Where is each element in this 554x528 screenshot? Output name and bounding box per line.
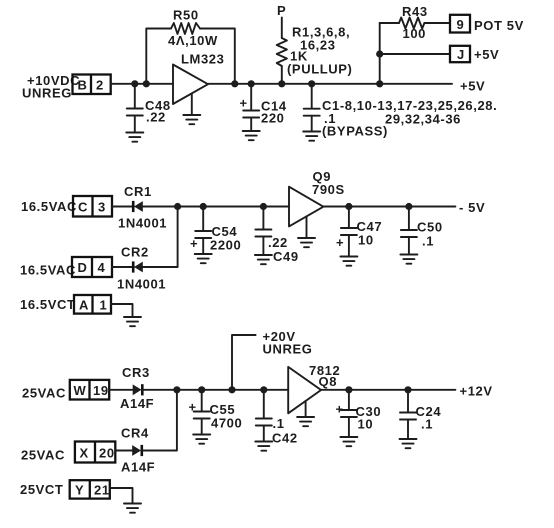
svg-text:1N4001: 1N4001 (118, 216, 167, 231)
svg-text:D: D (78, 260, 88, 275)
node P stub (277, 3, 286, 38)
ground C47 (340, 257, 357, 266)
connector W-19 (70, 380, 109, 400)
svg-text:4: 4 (98, 260, 106, 275)
connector D-4 (72, 257, 112, 277)
svg-text:CR1: CR1 (124, 184, 152, 199)
svg-text:X: X (80, 446, 89, 461)
svg-text:16.5VCT: 16.5VCT (20, 297, 76, 312)
capacitor C30 (336, 390, 382, 437)
wire C3 to CR1 (112, 206, 134, 208)
svg-text:2200: 2200 (210, 238, 241, 253)
transistor Q8 7812 regulator (288, 363, 340, 413)
svg-text:29,32,34-36: 29,32,34-36 (385, 112, 461, 127)
svg-text:1N4001: 1N4001 (117, 277, 166, 292)
svg-text:+: + (189, 400, 197, 415)
ground Q9 (298, 217, 315, 248)
svg-text:UNREG: UNREG (263, 342, 313, 357)
ground C14 (243, 131, 260, 140)
connector J +5V (450, 46, 499, 62)
svg-text:CR4: CR4 (121, 426, 149, 441)
svg-text:Y: Y (75, 483, 84, 498)
svg-text:3: 3 (98, 200, 106, 215)
svg-text:2: 2 (96, 78, 104, 93)
wire -5V rail left (143, 206, 290, 208)
wire R43 branch vertical (379, 23, 381, 84)
svg-text:10: 10 (358, 417, 374, 432)
svg-text:1: 1 (100, 298, 108, 313)
svg-text:790S: 790S (312, 182, 345, 197)
svg-text:.1: .1 (273, 416, 285, 431)
ground Y21 (124, 504, 141, 513)
svg-text:C49: C49 (273, 249, 299, 264)
junction C30 (345, 386, 352, 393)
connector X-20 (75, 442, 115, 463)
node +10VDC UNREG label (22, 73, 80, 101)
connector A-1 (74, 295, 111, 314)
svg-text:C: C (78, 200, 88, 215)
capacitor C1-8 bypass (304, 84, 498, 139)
capacitor C50 (401, 207, 443, 255)
svg-text:+5V: +5V (460, 79, 485, 94)
junction feedback right (231, 80, 238, 87)
capacitor C48 (127, 84, 171, 132)
junction C50 (405, 203, 412, 210)
svg-text:A14F: A14F (121, 460, 155, 475)
node +20V UNREG tap (232, 329, 312, 390)
svg-text:+12V: +12V (460, 384, 493, 399)
svg-text:.1: .1 (422, 234, 434, 249)
svg-text:(PULLUP): (PULLUP) (287, 62, 352, 77)
wire +12V rail right (321, 389, 455, 391)
capacitor C24 (400, 390, 441, 439)
svg-text:CR3: CR3 (122, 365, 150, 380)
svg-text:25VAC: 25VAC (21, 448, 65, 463)
wire W19 to CR3 (109, 389, 133, 391)
svg-text:16.5VAC: 16.5VAC (21, 199, 77, 214)
capacitor C14 (240, 84, 287, 131)
resistor R43 (380, 4, 450, 41)
op-amp U1 LM323 regulator (173, 52, 224, 105)
svg-text:21: 21 (94, 483, 110, 498)
capacitor C54 (190, 207, 241, 254)
svg-text:- 5V: - 5V (459, 200, 485, 215)
svg-text:C42: C42 (272, 431, 298, 446)
junction R43 branch (376, 80, 383, 87)
svg-text:10: 10 (358, 233, 374, 248)
junction C49 (260, 203, 267, 210)
svg-text:W: W (74, 383, 87, 398)
junction bypass (308, 80, 315, 87)
wire -5V rail right (323, 206, 455, 208)
junction C55 (198, 386, 205, 393)
svg-text:A: A (79, 298, 89, 313)
connector Y-21 (70, 480, 110, 498)
svg-text:4Λ,10W: 4Λ,10W (168, 33, 218, 48)
svg-text:20: 20 (99, 446, 115, 461)
ground C30 (340, 437, 357, 446)
junction C47 (345, 203, 352, 210)
junction CR4 join (173, 386, 180, 393)
svg-text:.1: .1 (421, 417, 433, 432)
junction J branch (376, 50, 383, 57)
connector B-2 (73, 75, 111, 95)
transistor Q9 7905 regulator (289, 169, 345, 226)
svg-text:C50: C50 (417, 220, 443, 235)
svg-text:16.5VAC: 16.5VAC (20, 263, 76, 278)
capacitor C55 (189, 390, 243, 434)
junction C14 (248, 80, 255, 87)
junction feedback left (143, 80, 150, 87)
svg-text:CR2: CR2 (121, 245, 149, 260)
resistor R1,3,6,8,16,23 pullup (277, 25, 353, 77)
svg-text:LM323: LM323 (181, 52, 224, 67)
wire D4 to CR2 (112, 266, 134, 268)
wire feedback loop (146, 29, 235, 84)
wire X20 to CR4 (115, 450, 132, 452)
svg-text:+: + (336, 235, 344, 250)
ground C42 (255, 442, 272, 451)
diode CR1 (118, 184, 167, 231)
junction C42 (260, 386, 267, 393)
connector C-3 (73, 196, 112, 217)
wire +5V rail right (208, 83, 452, 85)
diode CR3 (120, 365, 154, 411)
svg-text:.22: .22 (268, 235, 288, 250)
wire pullup to rail (281, 66, 283, 84)
wire to connector J (380, 53, 450, 55)
svg-text:B: B (78, 78, 88, 93)
svg-text:(BYPASS): (BYPASS) (322, 124, 388, 139)
svg-text:9: 9 (457, 17, 465, 32)
svg-text:220: 220 (261, 111, 285, 126)
capacitor C42 (256, 390, 298, 446)
junction CR2 join (174, 203, 181, 210)
svg-text:J: J (457, 47, 465, 62)
wire +12V rail left (142, 389, 288, 391)
resistor R50 (168, 8, 218, 49)
ground bypass (303, 132, 320, 141)
svg-text:P: P (277, 3, 286, 18)
svg-text:100: 100 (403, 26, 427, 41)
ground LM323 (183, 94, 200, 125)
ground Q8 (297, 401, 314, 426)
ground C55 (193, 435, 210, 444)
wire +5V rail left (111, 83, 173, 85)
diode CR2 (117, 245, 166, 292)
svg-text:+: + (190, 236, 198, 251)
svg-text:POT 5V: POT 5V (474, 18, 524, 33)
svg-text:25VAC: 25VAC (22, 386, 66, 401)
junction C24 (404, 386, 411, 393)
svg-text:+5V: +5V (474, 47, 499, 62)
junction pullup (278, 80, 285, 87)
capacitor C49 (255, 207, 298, 265)
wire CR4 up to rail (142, 390, 177, 451)
ground C50 (400, 255, 417, 264)
wire A1 to ground (111, 304, 133, 317)
svg-text:25VCT: 25VCT (20, 482, 63, 497)
svg-text:+: + (240, 96, 248, 111)
svg-text:R43: R43 (402, 4, 428, 19)
svg-text:R50: R50 (173, 8, 199, 23)
wire Y21 to ground (110, 488, 133, 503)
svg-text:.22: .22 (146, 110, 166, 125)
svg-text:19: 19 (93, 383, 109, 398)
junction C54 (200, 203, 207, 210)
ground C49 (255, 255, 272, 264)
capacitor C47 (336, 207, 382, 257)
svg-text:Q8: Q8 (319, 374, 338, 389)
svg-text:A14F: A14F (120, 396, 154, 411)
junction C48 (131, 80, 138, 87)
connector 9 POT 5V (450, 15, 524, 33)
ground C48 (126, 133, 143, 142)
svg-text:+: + (336, 402, 344, 417)
ground C24 (400, 439, 417, 448)
svg-text:UNREG: UNREG (22, 86, 72, 101)
ground C54 (195, 254, 212, 263)
svg-text:4700: 4700 (211, 416, 242, 431)
ground A1 (124, 317, 141, 326)
diode CR4 (121, 426, 155, 475)
junction +20V tap (228, 386, 235, 393)
wire CR2 up to rail (143, 207, 178, 268)
